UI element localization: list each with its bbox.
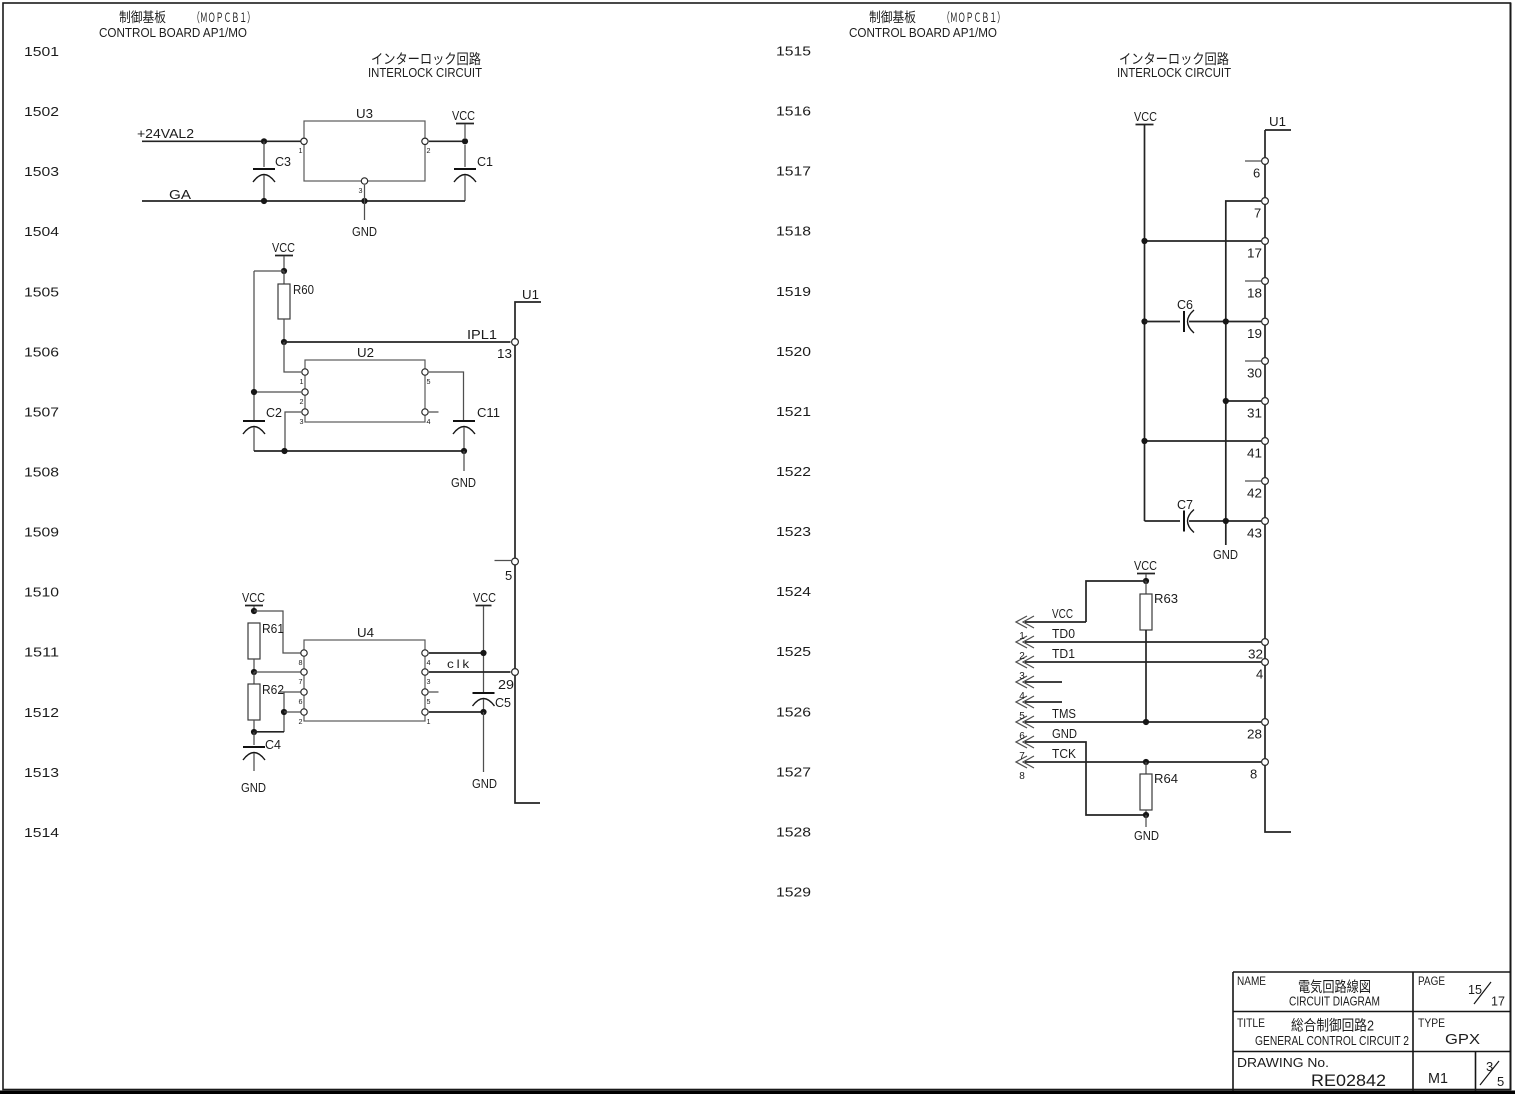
U2 pin 3 xyxy=(300,409,309,426)
svg-text:8: 8 xyxy=(299,658,303,667)
connector arrow pin 8 xyxy=(1016,746,1076,768)
svg-text:clk: clk xyxy=(447,657,472,671)
svg-text:3: 3 xyxy=(359,186,363,195)
svg-text:GND: GND xyxy=(451,475,476,490)
svg-text:TITLE: TITLE xyxy=(1237,1016,1265,1030)
svg-text:41: 41 xyxy=(1247,446,1262,461)
svg-text:（ＭＯＰＣＢ１）: （ＭＯＰＣＢ１） xyxy=(942,10,1005,25)
U3 pin 2 xyxy=(422,138,431,155)
junction pin4 / VCC / C5 xyxy=(480,650,486,656)
arrow 5 stub wire xyxy=(1025,701,1062,703)
svg-text:4: 4 xyxy=(427,417,431,426)
resistor R63 xyxy=(1140,581,1178,630)
U4 pin 3 xyxy=(422,669,431,686)
IC U4 xyxy=(304,625,425,721)
connector arrow pin 2 xyxy=(1016,626,1075,648)
svg-text:GND: GND xyxy=(1134,828,1159,843)
arrow pin number 3 xyxy=(1019,671,1025,682)
arrow pin number 2 xyxy=(1019,651,1025,662)
junction VCC rail / C6 xyxy=(1141,318,1147,324)
svg-text:1517: 1517 xyxy=(776,165,811,179)
U1 pin 31 xyxy=(1247,398,1268,421)
IC U2 xyxy=(305,345,425,422)
power VCC (right rail top) xyxy=(1134,109,1157,125)
svg-text:VCC: VCC xyxy=(1134,558,1157,573)
svg-text:インターロック回路: インターロック回路 xyxy=(1119,51,1229,67)
junction bottom rail / C11 / GND xyxy=(461,448,467,454)
connector arrow pin 7 xyxy=(1016,726,1077,748)
ground GND (below R64) xyxy=(1134,828,1159,843)
svg-text:5: 5 xyxy=(1019,711,1025,722)
svg-text:VCC: VCC xyxy=(1052,606,1073,621)
svg-text:GND: GND xyxy=(472,776,497,791)
svg-text:1512: 1512 xyxy=(24,706,59,720)
svg-text:30: 30 xyxy=(1247,366,1262,381)
U1 pin 30 xyxy=(1245,358,1268,381)
U1 pin 8 xyxy=(1250,759,1268,782)
svg-text:1528: 1528 xyxy=(776,825,811,839)
U4 pin 1 xyxy=(422,709,431,726)
svg-text:1518: 1518 xyxy=(776,225,811,239)
wire U3 pin 3 to GND xyxy=(364,185,366,220)
svg-text:43: 43 xyxy=(1247,526,1262,541)
wire VCC junction to arrow row 1 xyxy=(1086,581,1146,622)
svg-text:制御基板: 制御基板 xyxy=(869,9,916,25)
title block: TITLE cell xyxy=(1237,1016,1409,1048)
svg-text:3: 3 xyxy=(300,417,304,426)
connector U1 (right sheet) xyxy=(1265,114,1291,832)
svg-text:C2: C2 xyxy=(266,405,282,420)
svg-text:INTERLOCK CIRCUIT: INTERLOCK CIRCUIT xyxy=(368,66,482,80)
svg-text:18: 18 xyxy=(1247,286,1262,301)
resistor R62 xyxy=(248,672,284,732)
circuit title (right sheet): interlock circuit xyxy=(1117,51,1231,80)
capacitor C11 xyxy=(453,405,500,451)
svg-text:1524: 1524 xyxy=(776,585,811,599)
svg-text:5: 5 xyxy=(1497,1074,1504,1089)
svg-text:VCC: VCC xyxy=(272,240,295,255)
U4 pin 4 xyxy=(422,650,431,667)
wire GND arrow row to R64 bottom xyxy=(1025,742,1146,815)
svg-text:RE02842: RE02842 xyxy=(1311,1072,1386,1090)
svg-text:8: 8 xyxy=(1019,771,1025,782)
svg-text:GA: GA xyxy=(169,187,191,202)
wire TCK to U1 pin 8 xyxy=(1025,761,1261,763)
svg-text:2: 2 xyxy=(299,717,303,726)
header: control board title (left sheet) xyxy=(99,9,255,40)
svg-text:2: 2 xyxy=(300,397,304,406)
wire to GND (C11) xyxy=(463,451,465,471)
resistor R61 xyxy=(248,621,284,672)
ground GND (below C5) xyxy=(472,776,497,791)
net GA label xyxy=(169,187,191,202)
junction C7 wire / pin7 branch xyxy=(1223,518,1229,524)
net +24VAL2 label xyxy=(137,126,194,141)
capacitor C1 xyxy=(454,145,493,201)
svg-text:13: 13 xyxy=(497,346,512,361)
wire TD1 to U1 pin 4 xyxy=(1025,661,1261,663)
svg-text:U1: U1 xyxy=(1269,114,1286,129)
resistor R60 xyxy=(278,271,314,342)
svg-text:R63: R63 xyxy=(1154,591,1178,606)
svg-text:U1: U1 xyxy=(522,287,539,302)
svg-text:1521: 1521 xyxy=(776,405,811,419)
wire arrow1 tail (VCC) xyxy=(1025,621,1086,623)
U1 pin 6 xyxy=(1245,158,1268,181)
svg-text:1504: 1504 xyxy=(24,225,59,239)
svg-text:1529: 1529 xyxy=(776,886,811,900)
wire R63 to TMS junction xyxy=(1145,630,1147,722)
U1 pin 28 xyxy=(1247,719,1268,742)
U1 pin 18 xyxy=(1245,278,1268,301)
svg-text:17: 17 xyxy=(1491,994,1505,1009)
arrow pin number 7 xyxy=(1019,751,1025,762)
svg-text:M1: M1 xyxy=(1428,1070,1448,1087)
U4 pin 7 xyxy=(299,669,308,686)
svg-text:TD1: TD1 xyxy=(1052,646,1075,661)
svg-text:U3: U3 xyxy=(356,106,373,121)
net clk label xyxy=(447,657,472,671)
row number labels 1515-1529 (right margin) xyxy=(776,45,811,900)
svg-text:1526: 1526 xyxy=(776,705,811,719)
svg-text:1509: 1509 xyxy=(24,526,59,540)
wire down to GND (C5) xyxy=(483,712,485,772)
wire U4 pin 1 to GND branch xyxy=(429,711,484,713)
U4 pin 6 xyxy=(299,689,308,706)
ground GND (below C11) xyxy=(451,475,476,490)
U3 pin 1 xyxy=(299,138,308,155)
wire junction to U4 pin 2 xyxy=(284,711,301,713)
svg-text:1507: 1507 xyxy=(24,405,59,419)
svg-text:VCC: VCC xyxy=(242,590,265,605)
title block: NAME cell xyxy=(1237,974,1380,1009)
svg-text:1520: 1520 xyxy=(776,345,811,359)
U2 pin 4 xyxy=(422,409,431,426)
svg-text:NAME: NAME xyxy=(1237,974,1266,988)
capacitor C2 xyxy=(243,405,282,451)
svg-text:5: 5 xyxy=(427,377,431,386)
svg-text:1502: 1502 xyxy=(24,105,59,119)
wire junction to U4 pin 7 xyxy=(254,671,301,673)
U1 pin 19 xyxy=(1247,318,1268,341)
U1 pin 5 xyxy=(495,558,519,583)
junction GA / C3 xyxy=(261,198,267,204)
arrow pin number 5 xyxy=(1019,711,1025,722)
junction VCC rail / pin41 wire xyxy=(1141,438,1147,444)
svg-text:U2: U2 xyxy=(357,345,374,360)
svg-text:3: 3 xyxy=(1486,1059,1493,1074)
svg-text:GND: GND xyxy=(352,224,377,239)
svg-text:1506: 1506 xyxy=(24,345,59,359)
svg-text:1523: 1523 xyxy=(776,525,811,539)
junction pin2/VCC/C1 xyxy=(462,138,468,144)
svg-text:C6: C6 xyxy=(1177,297,1193,312)
svg-text:DRAWING No.: DRAWING No. xyxy=(1237,1056,1329,1070)
svg-text:1516: 1516 xyxy=(776,105,811,119)
wire VCC rail to U1 pin 17 xyxy=(1145,240,1262,242)
svg-text:1511: 1511 xyxy=(24,646,59,660)
svg-text:C3: C3 xyxy=(275,154,291,169)
junction bottom rail / pin3 branch xyxy=(281,448,287,454)
svg-text:1515: 1515 xyxy=(776,45,811,59)
svg-text:1522: 1522 xyxy=(776,465,811,479)
U1 pin 42 xyxy=(1245,478,1268,501)
junction GA / U3 pin 3 xyxy=(361,198,367,204)
svg-text:7: 7 xyxy=(299,677,303,686)
svg-text:R60: R60 xyxy=(293,282,314,297)
svg-text:電気回路線図: 電気回路線図 xyxy=(1298,979,1371,996)
power VCC (above R61) xyxy=(242,590,265,611)
U1 pin 29 xyxy=(498,669,518,692)
svg-text:CONTROL BOARD AP1/MO: CONTROL BOARD AP1/MO xyxy=(99,26,247,40)
title block: sheet 3/5 cell xyxy=(1480,1059,1504,1089)
U2 pin 2 xyxy=(300,389,309,406)
svg-text:VCC: VCC xyxy=(1134,109,1157,124)
capacitor C6 xyxy=(1145,297,1262,333)
wire U1 pin 7 L-branch down xyxy=(1226,201,1261,545)
junction VCC rail / pin17 wire xyxy=(1141,238,1147,244)
svg-text:C11: C11 xyxy=(477,405,500,420)
wire to GND (R64) xyxy=(1145,815,1147,827)
svg-text:1527: 1527 xyxy=(776,765,811,779)
U3 pin 3 xyxy=(359,178,368,195)
svg-text:GND: GND xyxy=(241,780,266,795)
junction VCC / R61 / pin8 branch xyxy=(251,608,257,614)
svg-text:1513: 1513 xyxy=(24,766,59,780)
svg-text:GND: GND xyxy=(1213,547,1238,562)
wire TMS to U1 pin 28 xyxy=(1025,721,1261,723)
svg-text:VCC: VCC xyxy=(452,108,475,123)
connector arrow pin 3 xyxy=(1016,646,1075,668)
svg-text:8: 8 xyxy=(1250,767,1257,782)
svg-text:INTERLOCK CIRCUIT: INTERLOCK CIRCUIT xyxy=(1117,66,1231,80)
svg-text:インターロック回路: インターロック回路 xyxy=(371,51,481,67)
capacitor C4 xyxy=(243,732,281,771)
U2 pin 4 stub xyxy=(429,411,439,413)
arrow pin number 6 xyxy=(1019,731,1025,742)
svg-text:7: 7 xyxy=(1019,751,1025,762)
svg-text:1508: 1508 xyxy=(24,466,59,480)
svg-text:3: 3 xyxy=(1019,671,1025,682)
net IPL1 label xyxy=(467,327,497,342)
svg-text:C5: C5 xyxy=(495,695,511,710)
power VCC (above C5) xyxy=(473,590,496,693)
junction pin7 branch / pin31 wire xyxy=(1223,398,1229,404)
U1 pin 7 xyxy=(1254,198,1268,221)
svg-text:PAGE: PAGE xyxy=(1418,974,1445,988)
junction R62 / C4 / bottom link xyxy=(251,729,257,735)
arrow 4 stub wire xyxy=(1025,681,1062,683)
power VCC (above R60) xyxy=(272,240,295,271)
svg-text:制御基板: 制御基板 xyxy=(119,9,166,25)
junction left rail / pin 2 wire xyxy=(251,389,257,395)
title block: PAGE cell xyxy=(1418,974,1505,1009)
svg-text:29: 29 xyxy=(498,677,514,692)
svg-text:1: 1 xyxy=(299,146,303,155)
wire VCC junction to left rail xyxy=(254,270,284,272)
wire TD0 to U1 pin 32 xyxy=(1025,641,1261,643)
svg-text:4: 4 xyxy=(427,658,431,667)
junction C6 wire / pin7 branch xyxy=(1223,318,1229,324)
svg-text:1525: 1525 xyxy=(776,645,811,659)
wire U4 pin 6 branch xyxy=(279,692,301,732)
svg-text:R64: R64 xyxy=(1154,771,1178,786)
svg-text:GND: GND xyxy=(1052,726,1077,741)
ground GND (U3 pin 3) xyxy=(352,224,377,239)
wire pin7 branch to U1 pin 31 xyxy=(1226,400,1261,402)
U1 pin 43 xyxy=(1247,518,1268,541)
svg-text:1503: 1503 xyxy=(24,165,59,179)
junction VCC / R60 / left rail xyxy=(281,268,287,274)
arrow pin number 8 xyxy=(1019,771,1025,782)
circuit title (left sheet): interlock circuit xyxy=(368,51,482,80)
left rail wire down to C2 xyxy=(253,271,255,421)
U1 pin 32 xyxy=(1248,639,1268,662)
svg-text:1: 1 xyxy=(300,377,304,386)
svg-text:総合制御回路2: 総合制御回路2 xyxy=(1291,1018,1374,1035)
svg-text:TYPE: TYPE xyxy=(1418,1016,1445,1030)
svg-text:4: 4 xyxy=(1256,667,1263,682)
svg-text:TMS: TMS xyxy=(1052,706,1076,721)
connector arrow pin 6 xyxy=(1016,706,1076,728)
U1 pin 4 xyxy=(1256,659,1268,682)
svg-text:VCC: VCC xyxy=(473,590,496,605)
U4 pin 2 xyxy=(299,709,308,726)
ground GND (pin7 branch) xyxy=(1213,547,1238,562)
svg-text:R62: R62 xyxy=(262,682,284,697)
arrow pin number 4 xyxy=(1019,691,1025,702)
svg-text:C7: C7 xyxy=(1177,497,1193,512)
svg-text:1505: 1505 xyxy=(24,285,59,299)
wire U2 pin 3 down to bottom rail xyxy=(285,412,301,451)
svg-text:TCK: TCK xyxy=(1052,746,1076,761)
svg-text:R61: R61 xyxy=(262,621,284,636)
svg-text:19: 19 xyxy=(1247,326,1262,341)
svg-text:32: 32 xyxy=(1248,647,1263,662)
svg-text:（ＭＯＰＣＢ１）: （ＭＯＰＣＢ１） xyxy=(192,10,255,25)
svg-text:15: 15 xyxy=(1468,982,1482,997)
U2 pin 5 xyxy=(422,369,431,386)
title block frame xyxy=(1233,972,1511,1091)
svg-text:GENERAL CONTROL CIRCUIT 2: GENERAL CONTROL CIRCUIT 2 xyxy=(1255,1034,1409,1048)
svg-text:42: 42 xyxy=(1247,486,1262,501)
svg-text:C1: C1 xyxy=(477,154,493,169)
svg-text:1514: 1514 xyxy=(24,826,59,840)
U4 pin 8 xyxy=(299,650,308,667)
svg-text:4: 4 xyxy=(1019,691,1025,702)
junction R60 / IPL1 xyxy=(281,339,287,345)
svg-text:C4: C4 xyxy=(265,737,281,752)
connector arrow pin 5 xyxy=(1016,696,1034,708)
connector arrow pin 1 xyxy=(1016,606,1073,628)
VCC rail wire xyxy=(1144,125,1146,522)
U4 pin 5 xyxy=(422,689,431,706)
svg-text:IPL1: IPL1 xyxy=(467,327,497,342)
wire +24VAL2 to U3 pin 1 xyxy=(142,140,301,142)
title block: DRAWING No. cell xyxy=(1237,1056,1386,1090)
svg-text:3: 3 xyxy=(427,677,431,686)
wire VCC junction to U4 pin 8 xyxy=(254,611,301,653)
capacitor C3 xyxy=(253,141,291,201)
junction VCC / R63 / arrow1 branch xyxy=(1143,578,1149,584)
U1 pin 17 xyxy=(1247,238,1268,261)
U2 pin 1 xyxy=(300,369,309,386)
svg-text:CONTROL BOARD AP1/MO: CONTROL BOARD AP1/MO xyxy=(849,26,997,40)
power VCC (above C1) xyxy=(452,108,475,138)
IC U3 xyxy=(304,106,425,181)
wire U3 pin 2 to VCC xyxy=(429,140,465,142)
svg-text:5: 5 xyxy=(505,568,512,583)
connector U1 (left sheet) xyxy=(515,287,541,803)
resistor R64 xyxy=(1140,762,1178,815)
svg-text:6: 6 xyxy=(1019,731,1025,742)
svg-text:17: 17 xyxy=(1247,246,1262,261)
wire IPL1 junction down to U2 pin 1 xyxy=(284,342,301,372)
junction TMS / R63 branch xyxy=(1143,719,1149,725)
svg-text:GPX: GPX xyxy=(1445,1031,1480,1048)
svg-text:7: 7 xyxy=(1254,206,1261,221)
svg-text:1510: 1510 xyxy=(24,586,59,600)
ground GND (below C4) xyxy=(241,780,266,795)
svg-text:1501: 1501 xyxy=(24,45,59,59)
wire VCC rail to U1 pin 41 xyxy=(1145,440,1262,442)
svg-text:1: 1 xyxy=(1019,631,1025,642)
svg-text:1: 1 xyxy=(427,717,431,726)
title block: M1 cell xyxy=(1428,1070,1448,1087)
power VCC (above R63) xyxy=(1134,558,1157,581)
capacitor C7 xyxy=(1145,497,1262,533)
wire bottom link to C4 junction xyxy=(254,731,284,733)
svg-text:1519: 1519 xyxy=(776,285,811,299)
svg-text:+24VAL2: +24VAL2 xyxy=(137,126,194,141)
junction +24VAL2 / C3 xyxy=(261,138,267,144)
header: control board title (right sheet) xyxy=(849,9,1005,40)
U1 pin 13 xyxy=(497,339,518,361)
wire IPL1 to U1 pin 13 xyxy=(284,341,511,343)
svg-text:6: 6 xyxy=(1253,166,1260,181)
junction pin1 / C5 / GND xyxy=(480,709,486,715)
junction pin2 wire / pin6 branch xyxy=(281,709,287,715)
wire GA xyxy=(142,200,465,202)
capacitor C5 xyxy=(473,693,512,712)
svg-text:5: 5 xyxy=(427,697,431,706)
junction R64 / GND branch xyxy=(1143,812,1149,818)
wire clk: U4 pin 3 to U1 pin 29 xyxy=(429,671,511,673)
connector arrow pin 4 xyxy=(1016,676,1034,688)
junction TCK / R64 xyxy=(1143,759,1149,765)
U4 pin 5 stub xyxy=(429,691,439,693)
row number labels 1501-1514 (left margin) xyxy=(24,45,59,840)
wire U2 pin 2 to left rail xyxy=(254,391,301,393)
U1 pin 41 xyxy=(1247,438,1268,461)
bottom rail wire (C2 to C11) xyxy=(254,450,464,452)
svg-text:CIRCUIT DIAGRAM: CIRCUIT DIAGRAM xyxy=(1289,995,1380,1009)
svg-text:U4: U4 xyxy=(357,625,374,640)
wire U4 pin 4 to VCC junction xyxy=(429,652,484,654)
svg-text:28: 28 xyxy=(1247,727,1262,742)
svg-text:TD0: TD0 xyxy=(1052,626,1075,641)
svg-text:2: 2 xyxy=(1019,651,1025,662)
junction R61 / R62 / pin7 xyxy=(251,669,257,675)
svg-text:6: 6 xyxy=(299,697,303,706)
arrow pin number 1 xyxy=(1019,631,1025,642)
svg-text:2: 2 xyxy=(427,146,431,155)
wire U2 pin 5 to C11 xyxy=(429,372,464,420)
svg-text:31: 31 xyxy=(1247,406,1262,421)
title block: TYPE cell xyxy=(1418,1016,1480,1048)
